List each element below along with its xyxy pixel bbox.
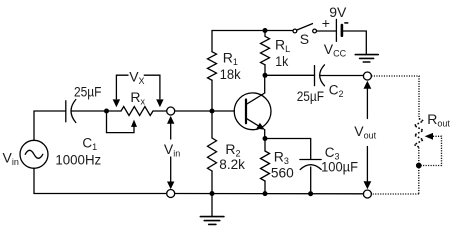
Vout measure arrows [364, 81, 372, 190]
node collector [263, 73, 268, 78]
svg-text:R1: R1 [223, 50, 238, 67]
wire C2 to output node [320, 75, 363, 77]
top rail VCC [212, 30, 293, 32]
transistor Q1 [234, 75, 271, 138]
node output top (open) [363, 72, 371, 80]
ground (main) [200, 194, 224, 225]
wire Rx to open node [153, 110, 167, 112]
wiper arrow of Rx [131, 120, 137, 127]
svg-text:560: 560 [271, 165, 294, 181]
bottom rail right part [175, 193, 364, 195]
resistor Rx (rheostat) [121, 107, 153, 116]
node R3 bottom [263, 191, 268, 196]
node bottom open circle [167, 190, 175, 198]
switch S [293, 24, 317, 33]
node ground junction [210, 191, 215, 196]
ground (VCC) [355, 55, 378, 62]
wire signal to C1 [34, 110, 66, 112]
svg-text:+: + [322, 15, 330, 31]
svg-text:1000Hz: 1000Hz [55, 152, 101, 168]
node emitter [263, 136, 268, 141]
source Vin (AC, 1000Hz) [20, 140, 48, 168]
svg-text:Vout: Vout [354, 123, 376, 141]
Vin measure arrows [167, 116, 174, 189]
svg-text:100µF: 100µF [321, 159, 358, 175]
resistor Rout (dashed) [414, 119, 423, 148]
capacitor C2 25uF [315, 65, 325, 86]
bottom ground rail [34, 193, 167, 195]
svg-text:Rx: Rx [130, 89, 145, 107]
resistor R2 8.2k [208, 111, 217, 194]
svg-text:RL: RL [275, 37, 290, 55]
wiper wire of Rx [107, 111, 135, 133]
wire battery to ground [343, 31, 366, 54]
VX bracket left arrow [113, 75, 128, 107]
svg-text:1k: 1k [275, 53, 289, 69]
svg-text:S: S [300, 31, 309, 47]
label - (battery minus) [344, 22, 348, 24]
wire source-top to signal line [33, 111, 35, 140]
wire emitter to C3 [265, 139, 311, 160]
svg-text:R3: R3 [274, 148, 289, 166]
wire source-bottom to ground rail [33, 168, 35, 193]
svg-text:9V: 9V [329, 4, 347, 20]
node output bottom (open) [363, 190, 371, 198]
dotted output network [371, 76, 441, 194]
svg-text:25µF: 25µF [74, 83, 102, 99]
svg-text:VX: VX [129, 69, 144, 87]
resistor R1 18k [208, 31, 217, 112]
resistor R3 560 [261, 139, 270, 194]
wire node to Rx [107, 110, 122, 112]
capacitor C1 25uF [66, 100, 76, 123]
node C3 bottom [308, 191, 313, 196]
svg-text:18k: 18k [220, 66, 242, 82]
node RL top [263, 28, 268, 33]
node C1/Rx junction [104, 109, 109, 114]
node open circle (signal) [167, 107, 175, 115]
svg-text:Vin: Vin [3, 149, 19, 167]
wire collector to C2 [265, 74, 315, 76]
wire C1 to node [72, 110, 107, 112]
wire node to base junction [175, 110, 235, 112]
battery VCC 9V [336, 19, 342, 41]
VX bracket right arrow [144, 75, 163, 107]
Rout wiper arrow [425, 133, 433, 140]
svg-text:C1: C1 [82, 136, 97, 153]
svg-text:Rout: Rout [427, 111, 450, 128]
svg-text:VCC: VCC [324, 41, 347, 59]
svg-text:Vin: Vin [164, 141, 180, 159]
svg-text:C2: C2 [329, 82, 344, 99]
capacitor C3 100uF [300, 160, 321, 195]
resistor RL 1k [261, 31, 270, 76]
node Rout wiper junction [416, 163, 422, 169]
svg-text:25µF: 25µF [297, 88, 324, 104]
node base junction [210, 109, 215, 114]
wire switch to battery [317, 30, 336, 32]
svg-text:8.2k: 8.2k [219, 156, 246, 172]
